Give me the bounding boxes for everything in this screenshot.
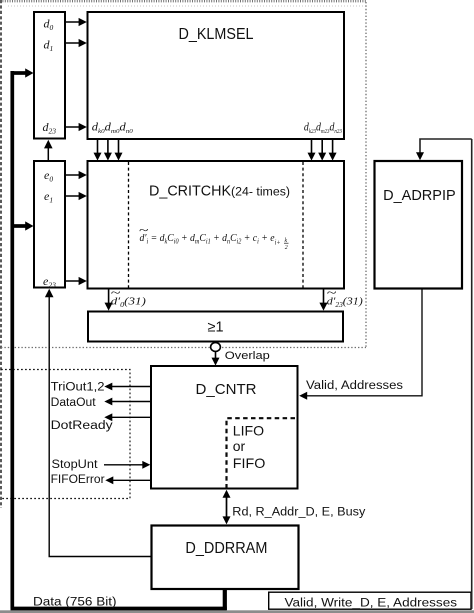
scan artifact left strip	[0, 0, 2, 508]
svg-text:LIFO: LIFO	[233, 423, 264, 439]
svg-text:Data (756 Bit): Data (756 Bit)	[33, 597, 117, 609]
label d0 in dbox	[43, 17, 364, 310]
block D_DDRRAM	[152, 526, 299, 590]
svg-text:DataOut: DataOut	[51, 397, 97, 409]
arrow d0 dbox to D_KLMSEL	[66, 21, 80, 23]
arrow StopUnt into D_CNTR	[104, 464, 144, 466]
arrow e1 ebox to D_CRITCHK	[66, 195, 80, 197]
svg-text:D_CNTR: D_CNTR	[196, 382, 257, 398]
wire D_ADRPIP bottom to D_CNTR (valid, addresses)	[306, 290, 422, 396]
arrow head into ebox bottom	[45, 289, 54, 298]
arrow thick bus into ebox	[12, 224, 26, 228]
arrow d23 dbox to D_KLMSEL	[66, 126, 80, 128]
arrow FIFOError out of D_CNTR	[112, 479, 150, 481]
wire D_ADRPIP top feed	[420, 139, 472, 153]
outer dashed region border (bottom)	[1, 347, 366, 349]
svg-text:StopUnt: StopUnt	[52, 459, 99, 471]
arrow double Rd R_Addr between D_CNTR and D_DDRRAM	[226, 497, 228, 518]
wire from D_DDRRAM left to ebox bottom	[49, 297, 150, 557]
arrow d'23 D_CRITCHK to GE1	[323, 290, 325, 304]
outer dashed region border (top faint)	[8, 5, 366, 7]
arrow head into D_ADRPIP top	[416, 152, 424, 160]
scan artifact top strip	[0, 0, 367, 2]
wire thick data bus vertical left	[10, 71, 14, 609]
arrow thick bus into dbox	[11, 71, 27, 75]
arrow TriOut1,2 out of D_CNTR	[111, 386, 150, 388]
arrow dm23 D_KLMSEL to D_CRITCHK	[321, 140, 323, 154]
arrow ebox up to dbox	[47, 148, 49, 160]
svg-text:~: ~	[111, 288, 121, 300]
arrow dn0 D_KLMSEL to D_CRITCHK	[118, 140, 120, 154]
block dbox (d0..d23 register)	[34, 12, 65, 139]
svg-text:Rd, R_Addr_D, E, Busy: Rd, R_Addr_D, E, Busy	[232, 507, 365, 519]
block D_CRITCHK	[88, 161, 345, 289]
svg-text:≥1: ≥1	[207, 320, 223, 336]
D_CRITCHK inner dashed partition left	[128, 162, 130, 288]
arrow overlap node to D_CNTR	[215, 351, 217, 358]
svg-text:D_ADRPIP: D_ADRPIP	[383, 187, 456, 204]
D_CRITCHK inner dashed partition right	[302, 162, 304, 288]
outer dashed region border (right)	[365, 2, 367, 348]
arrow dk23 D_KLMSEL to D_CRITCHK	[311, 140, 313, 154]
wire thick data bus stub up to D_DDRRAM	[223, 589, 227, 611]
node circle below GE1	[211, 343, 221, 352]
block D_ADRPIP	[375, 161, 463, 289]
svg-text:2: 2	[285, 245, 288, 251]
svg-text:or: or	[233, 438, 246, 454]
block ebox (e0..e23 register)	[34, 161, 65, 288]
svg-text:Valid, Write_D, E, Addresses: Valid, Write_D, E, Addresses	[285, 598, 458, 610]
svg-text:DotReady: DotReady	[51, 420, 113, 432]
svg-text:TriOut1,2: TriOut1,2	[51, 382, 105, 394]
arrow dk0 D_KLMSEL to D_CRITCHK	[97, 140, 99, 154]
arrow head into D_CNTR right	[299, 392, 307, 400]
scan artifact bottom strip	[0, 610, 474, 613]
arrow e0 ebox to D_CRITCHK	[66, 174, 80, 176]
svg-text:D_KLMSEL: D_KLMSEL	[179, 26, 254, 43]
svg-text:FIFOError: FIFOError	[51, 474, 105, 486]
arrow DataOut out of D_CNTR	[111, 401, 150, 403]
block bottom-right label box (Valid, Write_D, E, Addresses)	[269, 592, 471, 609]
svg-text:~: ~	[327, 288, 337, 300]
block D_CNTR	[151, 366, 298, 489]
wire thick data bus bottom horizontal	[11, 607, 227, 611]
wire right vertical long line	[471, 139, 473, 609]
arrow d1 dbox to D_KLMSEL	[66, 42, 80, 44]
LIFO/FIFO dashed sub-block in D_CNTR	[227, 418, 297, 488]
arrow d'0 D_CRITCHK to GE1	[108, 290, 110, 304]
svg-text:FIFO: FIFO	[233, 455, 266, 471]
svg-text:Overlap: Overlap	[225, 350, 270, 362]
arrow dn23 D_KLMSEL to D_CRITCHK	[332, 140, 334, 154]
arrow e23 ebox to D_CRITCHK	[66, 280, 80, 282]
svg-text:~: ~	[139, 224, 148, 236]
arrow DotReady out of D_CNTR	[111, 416, 150, 418]
arrow dm0 D_KLMSEL to D_CRITCHK	[107, 140, 109, 154]
block D_KLMSEL	[88, 12, 345, 139]
lower dashed signal-group box	[1, 370, 130, 499]
svg-text:D_DDRRAM: D_DDRRAM	[185, 540, 267, 557]
block OR-gate GE1	[88, 312, 343, 342]
svg-text:Valid, Addresses: Valid, Addresses	[306, 380, 403, 392]
